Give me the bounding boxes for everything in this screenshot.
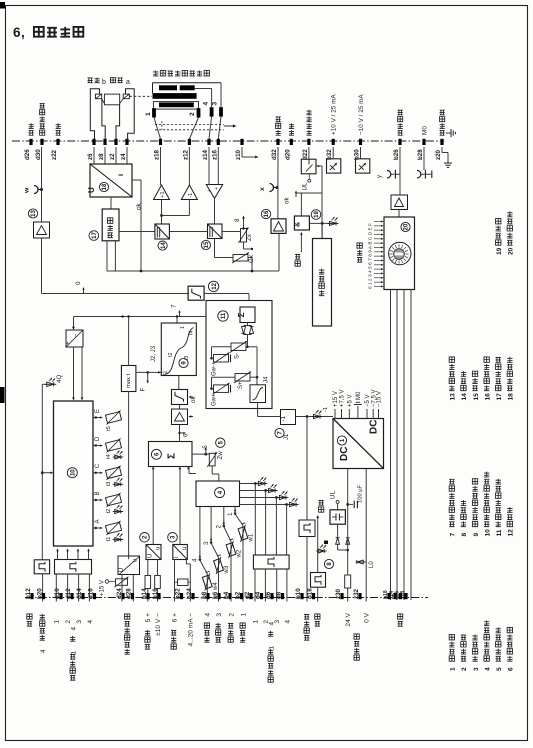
measurement amplifier box — [391, 195, 408, 210]
coil inner-left leg — [102, 99, 105, 141]
rail S- to J4 — [256, 347, 258, 385]
svg-text:d4: d4 — [255, 591, 262, 599]
demodulator block 15 — [208, 224, 223, 239]
stub 7 marker — [176, 317, 178, 324]
svg-text:18: 18 — [508, 393, 515, 401]
pin d20 — [290, 139, 293, 145]
curve box J4 — [250, 385, 266, 403]
circled 5 — [216, 438, 225, 447]
sensor pin 4 — [210, 107, 214, 116]
svg-text:5: 5 — [496, 667, 503, 671]
wire amp to block20 — [398, 210, 400, 218]
wire osc14 to demod15 — [169, 231, 207, 233]
svg-text:b12: b12 — [25, 588, 32, 599]
svg-text:x: x — [259, 187, 266, 191]
pin z20 — [440, 139, 443, 145]
pin d18 — [312, 593, 315, 599]
pin d8 — [281, 593, 284, 599]
wire block4 to sum6 — [188, 467, 190, 474]
wire b22 up — [174, 560, 176, 602]
svg-text:3: 3 — [212, 102, 219, 106]
pin b32 — [332, 139, 335, 145]
pin d30 — [40, 139, 43, 145]
pin b16 — [157, 593, 160, 599]
wire LED row 2 down to selector logic — [265, 491, 267, 556]
pin b14 — [146, 593, 149, 599]
pin z16 — [217, 139, 220, 145]
circled 11 — [218, 311, 228, 321]
wire block2 to sum6 — [152, 467, 154, 545]
command-value indicator LED 4 — [240, 504, 287, 506]
control output box b30 — [356, 159, 370, 173]
text controller — [107, 218, 112, 238]
circled 14 — [158, 241, 167, 250]
earth ground below z20 — [447, 160, 449, 163]
supply rail −7,5 V — [372, 409, 374, 419]
coil outer-left outline — [90, 89, 99, 141]
command value input wire w2 — [223, 507, 225, 527]
pin z12 — [188, 139, 191, 145]
wires block20 to reserve pins — [390, 290, 392, 601]
wire block11 to inverter — [257, 409, 259, 417]
wire b24 up — [189, 564, 191, 602]
svg-text:5: 5 — [202, 445, 209, 449]
circled 15 — [201, 240, 210, 249]
svg-text:10: 10 — [484, 529, 491, 537]
svg-text:1: 1 — [180, 326, 186, 329]
command value input wire w3 — [210, 507, 212, 544]
pin z30 — [340, 593, 343, 599]
ramp time pot t4 row D — [93, 445, 101, 447]
earth ground at system-ground label — [446, 132, 451, 134]
label reserved — [398, 614, 403, 626]
svg-text:+7,5 V: +7,5 V — [340, 389, 346, 407]
svg-text:4: 4 — [484, 667, 491, 671]
pot w1 — [235, 523, 250, 542]
circled 20 — [401, 222, 410, 231]
wire block3 to sum6 — [179, 467, 181, 545]
enable step box 8 — [311, 573, 326, 588]
burden resistor b22/b24 — [178, 579, 189, 586]
wire polarity to block10 a — [73, 347, 75, 398]
inductive position sensor (LVDT) — [153, 71, 209, 76]
z32 wire up — [365, 469, 367, 602]
svg-text:z8: z8 — [98, 153, 105, 160]
DC/DC converter block 1 — [333, 419, 384, 469]
svg-text:J2, J3: J2, J3 — [151, 345, 157, 362]
svg-text:Gw-: Gw- — [212, 365, 218, 376]
wire pin3 to z16 — [218, 117, 221, 139]
svg-text:5 +: 5 + — [145, 613, 152, 622]
label enable — [295, 254, 300, 266]
wire maxt up to feedback — [128, 317, 130, 366]
left rail 4Q to selector boxA — [42, 383, 46, 385]
svg-text:4Q: 4Q — [56, 375, 63, 383]
wire demod to Zx — [222, 231, 241, 233]
pin b22 — [180, 593, 183, 599]
pin z4 — [125, 139, 128, 145]
pin z8 — [103, 139, 106, 145]
wire block16 to x jack — [277, 191, 279, 219]
4Q quadrant LED — [45, 378, 57, 387]
wire ramp-select pin 56.3 — [55, 574, 57, 602]
coil center window — [104, 94, 119, 105]
wire Zw to block4 — [211, 466, 213, 474]
edge registration mark top-left — [0, 2, 5, 9]
pin b28 — [422, 139, 425, 145]
pin z10 — [240, 139, 243, 145]
wire to b10 — [306, 537, 308, 602]
svg-text:2: 2 — [216, 525, 223, 529]
svg-text:4...20 mA −: 4...20 mA − — [188, 613, 195, 647]
ramp time pot t2 row B — [93, 499, 101, 501]
svg-text:t1: t1 — [163, 371, 169, 375]
differential input block 2 — [146, 545, 161, 560]
svg-text:0 1 2 3 4 5 6 7 8 9 A B C D E: 0 1 2 3 4 5 6 7 8 9 A B C D E F — [368, 223, 373, 289]
svg-text:z32: z32 — [353, 588, 360, 599]
supply rail +15 V — [334, 409, 336, 419]
label enable (qiyong) — [319, 500, 324, 512]
svg-text:14: 14 — [461, 393, 468, 401]
svg-text:E: E — [95, 409, 101, 413]
pin z22 — [56, 139, 59, 145]
label 保留 at pin d20 — [289, 123, 294, 135]
label external ramp time — [125, 614, 130, 654]
svg-text:+15 V: +15 V — [333, 391, 339, 407]
svg-text:2: 2 — [228, 613, 235, 617]
svg-text:M0: M0 — [422, 126, 429, 135]
svg-text:ok: ok — [190, 396, 197, 403]
fault monitor box — [313, 239, 332, 327]
svg-text:+: + — [65, 341, 72, 345]
svg-text:M0: M0 — [356, 391, 362, 400]
L0 diode branch — [356, 561, 366, 563]
svg-text:d18: d18 — [307, 588, 314, 599]
oscillator block 14 — [155, 224, 170, 239]
sensor core dashed lines + direction arrow — [155, 123, 224, 125]
svg-text:b10: b10 — [295, 588, 302, 599]
fault AND gate 19 — [294, 216, 309, 230]
svg-text:+1: +1 — [160, 191, 166, 198]
svg-text:d22: d22 — [302, 149, 309, 160]
svg-text:z22: z22 — [51, 149, 58, 160]
rotary dial — [389, 242, 411, 264]
svg-text:12: 12 — [508, 529, 515, 537]
svg-text:ok: ok — [136, 202, 143, 210]
svg-text:A: A — [95, 519, 101, 523]
pin d26 — [29, 139, 32, 145]
supply rail −5 V — [366, 409, 368, 419]
pin z6 — [92, 139, 95, 145]
svg-text:6: 6 — [183, 433, 190, 437]
polarity step box — [299, 520, 315, 537]
solenoid coils drawing (coil b / coil a) — [87, 77, 99, 82]
wire to limiter12 — [42, 293, 190, 295]
svg-text:a: a — [126, 79, 130, 86]
svg-text:15: 15 — [473, 393, 480, 401]
pot w4 — [200, 571, 215, 590]
svg-text:4: 4 — [192, 558, 199, 562]
command value selector block 4 — [196, 481, 240, 507]
wire sum6 to Zw — [192, 453, 209, 455]
wire Zx down — [243, 242, 245, 249]
wire LED row 1 down to selector logic — [254, 484, 256, 556]
pin d28 — [131, 593, 134, 599]
z30 24V rail up to DC/DC — [347, 469, 349, 551]
svg-text:d8: d8 — [276, 591, 283, 599]
pin d2 — [249, 593, 252, 599]
svg-text:7: 7 — [171, 304, 178, 308]
wire selector to pin x=286.9 — [286, 569, 288, 602]
svg-text:4: 4 — [284, 620, 291, 624]
svg-text:−15 V: −15 V — [377, 391, 383, 407]
svg-text:-1: -1 — [280, 415, 287, 421]
coil hatched pole right — [123, 94, 129, 99]
ramp time pot t5 row E — [93, 417, 101, 419]
wire z20 to earth — [441, 147, 443, 153]
svg-text:D: D — [95, 436, 101, 441]
wire pin4 to z14 — [209, 117, 212, 139]
svg-text:17: 17 — [496, 393, 503, 401]
wire pin4 up — [211, 89, 213, 108]
wire z-pin 127 to block18 — [126, 147, 128, 164]
wire z30 up — [347, 588, 349, 602]
selector input arrows — [374, 221, 382, 223]
svg-text:3: 3 — [216, 613, 223, 617]
step box A (b20 phase) — [34, 560, 49, 574]
svg-text:d6: d6 — [265, 591, 272, 599]
pin z18 — [159, 139, 162, 145]
test jack x — [270, 184, 274, 192]
100uF capacitor branch — [348, 503, 353, 505]
circled 4 — [215, 488, 225, 498]
polarity LED — [312, 410, 323, 419]
svg-text:8: 8 — [461, 533, 468, 537]
pin b30 — [359, 139, 362, 145]
stub 8 — [243, 218, 245, 229]
wire AND up to ok line — [300, 193, 302, 216]
svg-text:d2: d2 — [244, 591, 251, 599]
label 4-phase operation — [40, 614, 45, 640]
svg-text:1: 1 — [145, 112, 152, 116]
wire x jack to d32 — [277, 147, 279, 191]
svg-text:b8: b8 — [201, 591, 208, 599]
wire ramp-select pin 67.6 — [67, 574, 69, 602]
svg-text:J4: J4 — [263, 376, 270, 383]
wire b16 up — [157, 589, 159, 602]
label enable — [315, 614, 320, 626]
text fault detection — [319, 269, 324, 296]
circled 3 — [168, 533, 178, 543]
current input block 3 — [173, 545, 188, 560]
circled 13 — [28, 209, 37, 218]
svg-text:t5: t5 — [106, 426, 112, 431]
controller block 17 — [102, 209, 119, 241]
svg-text:−5 V: −5 V — [365, 394, 371, 407]
svg-text:16: 16 — [484, 393, 491, 401]
svg-text:b24: b24 — [186, 588, 193, 599]
svg-text:1: 1 — [54, 620, 61, 624]
svg-text:w3: w3 — [224, 565, 230, 574]
amplifier +1 — [154, 185, 170, 200]
resistor at b16 — [155, 576, 161, 589]
pin b26 — [398, 139, 401, 145]
pin z24 — [393, 593, 396, 599]
protection diodes — [336, 538, 340, 545]
wire block18 aux out — [132, 179, 141, 181]
wire amp1 out — [161, 200, 163, 225]
svg-text:14: 14 — [161, 242, 167, 249]
svg-text:−10 V / 25 mA: −10 V / 25 mA — [358, 94, 365, 135]
wire to summator6 — [179, 425, 181, 442]
zero-point pot Zw (5) — [209, 453, 215, 466]
svg-text:24 V: 24 V — [345, 612, 352, 626]
command value input wire w1 — [234, 507, 236, 515]
svg-text:b14: b14 — [141, 588, 148, 599]
svg-text:L0: L0 — [369, 561, 375, 568]
selection logic box (item 4 logic) — [253, 555, 289, 569]
label reserved b12 — [27, 614, 32, 626]
svg-text:d12: d12 — [65, 588, 72, 599]
input scaling block 13 — [34, 222, 50, 238]
pin z2 — [114, 139, 117, 145]
wire fault line to relay — [316, 165, 319, 168]
svg-text:17: 17 — [92, 232, 98, 239]
svg-text:6: 6 — [508, 667, 515, 671]
svg-text:d14: d14 — [76, 588, 83, 599]
+15V trimmer — [116, 579, 128, 586]
svg-text:d16: d16 — [88, 588, 95, 599]
svg-text:+15 V: +15 V — [100, 580, 106, 596]
svg-text:d26: d26 — [24, 149, 31, 160]
circled 19 — [311, 210, 321, 220]
ramp time selection logic block 10 — [54, 401, 94, 546]
wire b30 — [360, 147, 362, 159]
wire d30 to w jack — [41, 147, 43, 222]
power output stage block 18 — [90, 164, 132, 197]
enable arrow into AND — [300, 233, 302, 252]
control output box b32 — [327, 159, 341, 173]
svg-text:t2: t2 — [106, 509, 112, 514]
group label working voltage — [354, 634, 359, 660]
svg-text:8: 8 — [234, 218, 241, 222]
wire b28 down — [423, 147, 425, 170]
svg-text:C: C — [95, 463, 101, 468]
internal supply UL box with capacitor — [330, 510, 345, 524]
wire z-pin 94 to block18 — [93, 147, 95, 164]
wire d24 up — [121, 575, 123, 602]
wire LED row 4 down to selector logic — [286, 505, 288, 556]
svg-text:u: u — [133, 559, 139, 562]
svg-text:d32: d32 — [271, 149, 278, 160]
label polarity change — [304, 614, 309, 640]
pot S+ — [235, 374, 250, 382]
svg-text:z10: z10 — [235, 149, 242, 160]
pot S- — [231, 343, 246, 351]
label 系统接地 at pin z20 — [440, 110, 445, 136]
svg-text:z4: z4 — [120, 153, 127, 160]
feedback wire block11 to polarity box — [74, 316, 207, 318]
pin b2 — [240, 593, 243, 599]
svg-text:13: 13 — [31, 210, 37, 217]
svg-text:0: 0 — [75, 281, 82, 285]
secondary winding frame — [153, 102, 198, 110]
svg-text:t2: t2 — [168, 353, 174, 357]
svg-text:16: 16 — [264, 210, 270, 217]
max t selector box — [121, 366, 135, 392]
command-value indicator LED 1 — [240, 483, 256, 485]
circled 9 — [179, 358, 188, 367]
svg-text:1: 1 — [240, 613, 247, 617]
svg-text:t1: t1 — [106, 537, 112, 542]
zero marker 0 — [83, 289, 85, 294]
svg-text:4: 4 — [87, 620, 94, 624]
svg-text:F: F — [140, 388, 147, 392]
wire b32 — [332, 147, 334, 159]
svg-text:b26: b26 — [393, 149, 400, 160]
ramp time pot t1 row A — [93, 527, 101, 529]
wire enable up — [317, 517, 319, 573]
ready relay box (d22) — [301, 159, 316, 174]
svg-text:+: + — [207, 189, 213, 192]
label 保留 at pin d26 — [29, 123, 34, 135]
circled 8 — [324, 559, 333, 568]
pin z28 — [404, 593, 407, 599]
UL terminal below relay — [308, 174, 310, 179]
sum box in block 11 — [240, 307, 255, 323]
wire z12 to amp2 — [188, 147, 190, 185]
svg-text:2: 2 — [189, 112, 196, 116]
wire osc14 to controller17 — [119, 231, 155, 233]
svg-text:U: U — [148, 554, 154, 558]
long rail maxt to ext-ramp box — [128, 392, 130, 560]
coil hatched pole left — [96, 94, 102, 99]
ramp time pot t3 row C — [93, 472, 101, 474]
supply rail +5 V — [348, 409, 350, 419]
characteristic curve generator block 11 — [206, 301, 272, 409]
svg-text:Gw+: Gw+ — [212, 393, 218, 406]
wire b26 down — [399, 147, 401, 195]
svg-text:2: 2 — [65, 620, 72, 624]
wire z16 to amp3 — [217, 147, 219, 185]
Zx potentiometer — [241, 229, 247, 243]
svg-text:11: 11 — [496, 529, 503, 536]
svg-text:1: 1 — [252, 620, 259, 624]
svg-text:Zx: Zx — [246, 233, 253, 241]
svg-text:100 µF: 100 µF — [358, 484, 364, 503]
wire inverter to DCDC — [296, 416, 334, 418]
svg-text:t4: t4 — [189, 331, 195, 335]
svg-text:+5 V: +5 V — [348, 394, 354, 407]
wire polarity down — [306, 417, 308, 521]
svg-text:z14: z14 — [202, 149, 209, 160]
svg-text:d10: d10 — [54, 588, 61, 599]
svg-text:15: 15 — [204, 241, 210, 248]
svg-text:6 +: 6 + — [171, 613, 178, 622]
supply rail M0 — [357, 406, 359, 419]
edge registration mark left-middle — [0, 387, 5, 403]
wire selector to pin x=255 — [254, 569, 256, 602]
wire AND to LED — [309, 222, 329, 224]
dashed link coil to sensor — [130, 95, 153, 97]
svg-text:20: 20 — [404, 223, 410, 230]
svg-text:b20: b20 — [37, 588, 44, 599]
pin b18 — [387, 593, 390, 599]
svg-text:−: − — [73, 334, 80, 338]
svg-text:+: + — [214, 187, 220, 190]
Gx potentiometer — [233, 255, 248, 262]
svg-text:y: y — [377, 175, 383, 178]
